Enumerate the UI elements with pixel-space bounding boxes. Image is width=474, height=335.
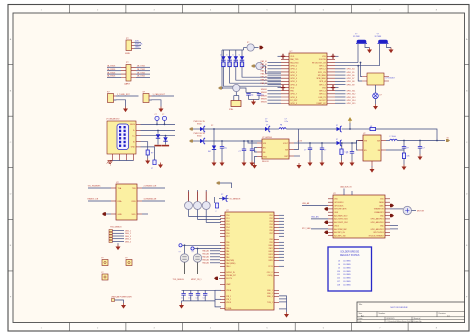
wire (198, 219, 222, 221)
capacitor C16 (190, 290, 192, 293)
svg-text:PB7: PB7 (269, 233, 272, 235)
svg-text:GPIO_4: GPIO_4 (319, 91, 326, 93)
svg-text:Revision: Revision (439, 313, 446, 315)
svg-text:SPLIT/GPIO4: SPLIT/GPIO4 (373, 232, 383, 234)
inductor L2 (390, 139, 398, 140)
svg-text:GPIO0/SDO: GPIO0/SDO (334, 202, 344, 204)
svg-text:SWDIO: SWDIO (261, 95, 268, 97)
wire (279, 250, 284, 252)
svg-text:DBG_3: DBG_3 (125, 236, 131, 238)
svg-text:GPIO_S6: GPIO_S6 (347, 75, 355, 77)
svg-text:U? LM2596: U? LM2596 (262, 137, 272, 139)
power port VCC (349, 119, 351, 123)
capacitor C14 (419, 141, 421, 147)
svg-text:SPI_MAX: SPI_MAX (318, 74, 327, 77)
svg-text:Date:: Date: (359, 317, 364, 320)
svg-text:PIN_1: PIN_1 (226, 296, 231, 298)
wire (335, 83, 346, 85)
svg-text:J18: J18 (337, 285, 340, 287)
svg-text:GPIO_1: GPIO_1 (319, 65, 326, 67)
wire (335, 71, 346, 73)
svg-text:D?: D? (336, 139, 338, 141)
ground (390, 48, 392, 50)
port (106, 213, 111, 215)
svg-text:RTC_SEN: RTC_SEN (302, 228, 311, 230)
wire (268, 102, 282, 104)
svg-text:PB0: PB0 (226, 242, 229, 244)
svg-text:PIN_2: PIN_2 (226, 299, 231, 301)
svg-text:CLOSED: CLOSED (343, 267, 351, 269)
capacitor C12 (351, 143, 353, 152)
wire (210, 262, 220, 264)
svg-text:PD2: PD2 (226, 221, 229, 223)
svg-text:VDD3: VDD3 (334, 225, 339, 227)
wire (335, 68, 346, 70)
svg-text:GPIO_S8: GPIO_S8 (347, 81, 355, 83)
svg-text:PB8: PB8 (269, 239, 272, 241)
capacitor C1 (155, 116, 159, 120)
svg-text:J10: J10 (337, 271, 340, 273)
power port VSS (335, 55, 339, 57)
svg-text:Drawn By:: Drawn By: (414, 321, 423, 323)
svg-text:DEFAULT STATES: DEFAULT STATES (340, 254, 360, 257)
svg-text:PA0_AD: PA0_AD (202, 250, 209, 253)
crystal Y5 (193, 254, 201, 262)
capacitor C2 (162, 116, 166, 120)
ground (213, 161, 215, 163)
wire (279, 247, 284, 249)
wire (335, 74, 346, 76)
svg-text:REG-5V: REG-5V (262, 161, 269, 163)
wire (342, 141, 363, 144)
port 5V out (446, 139, 450, 142)
svg-text:J? USB-MICRO: J? USB-MICRO (106, 119, 120, 121)
svg-text:MOTOR: MOTOR (417, 211, 425, 213)
wire (268, 77, 282, 79)
ground (181, 303, 183, 305)
resistor R7 (357, 128, 371, 130)
svg-text:TXS_DEBUG: TXS_DEBUG (110, 227, 122, 229)
resistor R8 (403, 148, 405, 153)
wire fb (386, 149, 404, 151)
wire (335, 96, 346, 98)
svg-text:SW: SW (377, 140, 380, 142)
wire rail2 (205, 140, 263, 142)
IC U1 (289, 53, 327, 105)
ground (286, 312, 288, 314)
wire (261, 140, 263, 142)
svg-text:TXL_RS485RX: TXL_RS485RX (88, 186, 102, 188)
wire VBUS (141, 123, 176, 125)
svg-text:TCM_1: TCM_1 (267, 302, 273, 304)
svg-text:GND: GND (263, 156, 268, 158)
ground (147, 159, 149, 161)
wire (279, 226, 284, 228)
svg-text:PD0: PD0 (226, 215, 229, 217)
transistor Q2 (188, 190, 190, 192)
svg-text:VDD: VDD (132, 214, 137, 216)
ground (221, 161, 223, 163)
wire (335, 93, 346, 95)
svg-text:GPIO1/SCK: GPIO1/SCK (334, 205, 344, 207)
svg-text:DBG_2: DBG_2 (125, 233, 131, 235)
wire (397, 140, 445, 142)
svg-text:1A_RXD1: 1A_RXD1 (107, 75, 115, 78)
svg-text:PB1: PB1 (226, 245, 229, 247)
ground (160, 107, 162, 109)
svg-text:GND_1: GND_1 (267, 290, 273, 292)
svg-text:XTAL: XTAL (229, 108, 233, 111)
svg-text:PB3: PB3 (269, 221, 272, 223)
svg-text:PA0_TXD: PA0_TXD (290, 58, 299, 61)
wire (342, 128, 357, 130)
wire (279, 235, 284, 237)
capacitor C13 (403, 141, 405, 147)
svg-text:ADC/CHIP1_SDO: ADC/CHIP1_SDO (334, 221, 348, 224)
svg-text:D?: D? (211, 125, 213, 127)
svg-text:C:\Users\sch\MotorDriver.SchDo: C:\Users\sch\MotorDriver.SchDoc (387, 320, 414, 323)
MCU U2 (225, 212, 274, 310)
wire D+ (141, 135, 176, 137)
svg-text:C?: C? (155, 114, 157, 116)
svg-text:CLOSED: CLOSED (343, 278, 351, 280)
svg-text:2B_TXD1: 2B_TXD1 (137, 66, 145, 68)
svg-text:GND: GND (131, 147, 136, 149)
diode D11 (337, 127, 341, 131)
wire EN2 (357, 141, 359, 151)
ground (309, 161, 311, 163)
fiducial F3 (102, 274, 108, 280)
wire (268, 65, 282, 67)
svg-text:TXD_DEBUG: TXD_DEBUG (173, 279, 185, 281)
capacitor C3b (153, 160, 156, 165)
svg-text:C?: C? (162, 114, 164, 116)
svg-text:GPIO_8: GPIO_8 (290, 97, 297, 99)
svg-text:F?: F? (126, 257, 128, 259)
wire (279, 217, 284, 219)
svg-text:PA3_AD: PA3_AD (202, 259, 209, 262)
port (324, 231, 328, 234)
wire (335, 102, 346, 104)
svg-text:PA4(TMS): PA4(TMS) (226, 259, 234, 262)
svg-text:USB_AN: USB_AN (302, 202, 310, 205)
svg-text:GND: GND (118, 214, 123, 216)
wire (302, 205, 328, 207)
wire (352, 142, 357, 144)
svg-text:C?: C? (324, 150, 326, 152)
wire bst (294, 155, 300, 157)
svg-text:PB0: PB0 (290, 91, 294, 93)
svg-text:PWR2 24V IN: PWR2 24V IN (194, 133, 206, 135)
svg-text:GPIO_AN/GPIO2: GPIO_AN/GPIO2 (371, 228, 384, 231)
svg-text:0.1u: 0.1u (285, 121, 289, 123)
svg-text:OSC_O: OSC_O (267, 272, 274, 274)
svg-text:SPIE_MAX: SPIE_MAX (316, 77, 326, 80)
svg-text:2B_TXD1: 2B_TXD1 (137, 76, 145, 78)
svg-text:PA15: PA15 (269, 259, 273, 262)
svg-text:GPIO_AN/GPIO0: GPIO_AN/GPIO0 (371, 221, 384, 224)
wire (88, 187, 111, 189)
svg-text:SPI1_A: SPI1_A (319, 80, 326, 83)
capacitor C17 (197, 290, 199, 293)
svg-text:10u: 10u (265, 121, 268, 123)
wire (210, 256, 220, 258)
svg-text:1A_RXD1: 1A_RXD1 (107, 65, 115, 68)
svg-text:LIN3_TX: LIN3_TX (318, 97, 326, 99)
wire (210, 250, 220, 252)
port 24V2 (189, 140, 193, 143)
svg-text:X?: X? (247, 42, 249, 44)
wire sw (294, 129, 299, 150)
svg-text:CANH: CANH (379, 201, 385, 204)
capacitor C10 (309, 143, 311, 148)
LED D6 (373, 93, 379, 99)
svg-text:32.768K: 32.768K (375, 36, 382, 38)
svg-text:5V_SENSOR: 5V_SENSOR (230, 199, 241, 201)
wire (279, 229, 284, 231)
diode D12 (337, 141, 341, 145)
svg-text:PB9: PB9 (269, 242, 272, 244)
wire (213, 129, 215, 146)
svg-text:J11: J11 (337, 274, 340, 276)
svg-text:TCK/A: TCK/A (226, 307, 232, 310)
svg-text:PA14: PA14 (269, 256, 273, 259)
wire (279, 232, 284, 234)
capacitor C20 (214, 197, 216, 203)
svg-text:Sheet of: Sheet of (414, 317, 421, 320)
power port VSS (335, 87, 339, 89)
svg-text:PD3: PD3 (226, 224, 229, 226)
svg-text:SWDIO: SWDIO (261, 98, 268, 100)
svg-text:C?: C? (239, 151, 241, 153)
wire (223, 69, 281, 86)
svg-text:CLOSED: CLOSED (343, 281, 351, 283)
port 24V (189, 128, 193, 131)
IC U7 (116, 184, 137, 220)
svg-text:SOLDER BRIDGE: SOLDER BRIDGE (340, 252, 359, 254)
ground (419, 155, 421, 157)
wire (268, 62, 282, 64)
svg-text:PB2: PB2 (269, 218, 272, 220)
svg-text:PD4: PD4 (226, 227, 229, 229)
svg-text:GPIO_4: GPIO_4 (290, 78, 297, 80)
power port (251, 65, 255, 68)
svg-text:PA5_IO: PA5_IO (261, 69, 268, 72)
svg-text:F?: F? (102, 272, 104, 274)
svg-text:PWR1 24V IN: PWR1 24V IN (194, 121, 206, 123)
svg-text:SPI1_CN: SPI1_CN (318, 72, 326, 74)
resonator Y1 (244, 47, 248, 49)
svg-text:Y?: Y? (355, 34, 357, 36)
wire (268, 80, 282, 82)
wire (147, 155, 149, 159)
svg-text:3_RS485B_DE: 3_RS485B_DE (144, 199, 158, 201)
earth ground (108, 161, 113, 166)
wire (375, 99, 377, 104)
USB connector J1 (107, 121, 136, 154)
wire (181, 301, 183, 303)
svg-text:J4: J4 (338, 264, 340, 266)
label CAN_H (311, 218, 328, 220)
TVS diode D2 (163, 137, 167, 141)
svg-text:TERMISTOR: TERMISTOR (374, 209, 385, 211)
power port VDD (278, 87, 282, 89)
capacitor C11 (321, 143, 323, 148)
wire (268, 71, 282, 73)
svg-text:PA6_IO: PA6_IO (261, 72, 268, 75)
svg-text:SWCLK: SWCLK (135, 44, 143, 46)
svg-text:CAN_BUS_5V: CAN_BUS_5V (340, 186, 352, 189)
wire (279, 244, 284, 246)
wire shield (110, 160, 134, 162)
solder bridge table (328, 247, 372, 291)
port (390, 214, 394, 217)
svg-text:MRST_PB_1: MRST_PB_1 (191, 279, 202, 281)
svg-text:PA9_IO: PA9_IO (261, 82, 268, 85)
wire GND pin (141, 147, 155, 160)
resistor R6 (341, 143, 343, 149)
svg-text:GPIO_9: GPIO_9 (290, 103, 297, 105)
wire (268, 90, 282, 92)
svg-text:D?: D? (266, 125, 268, 127)
ground (369, 48, 371, 50)
svg-text:PA12: PA12 (269, 250, 273, 253)
wire (279, 214, 284, 216)
svg-text:File:: File: (359, 321, 363, 323)
wire (236, 69, 281, 80)
svg-text:PB4: PB4 (269, 224, 272, 226)
crystal X3 (231, 101, 241, 107)
regulator U5 (262, 139, 289, 159)
svg-text:PA7_IO: PA7_IO (261, 76, 268, 79)
svg-text:XOUT/H: XOUT/H (319, 59, 327, 61)
svg-text:VDD: VDD (290, 56, 295, 58)
svg-text:CLOSED: CLOSED (343, 264, 351, 266)
svg-text:PA3: PA3 (226, 256, 229, 259)
wire (268, 96, 282, 98)
svg-text:PA1: PA1 (226, 250, 229, 253)
svg-text:C?: C? (304, 150, 306, 152)
svg-text:Y?: Y? (179, 252, 181, 254)
svg-text:+5.0V: +5.0V (297, 140, 303, 142)
resistor R4 (235, 60, 237, 62)
svg-text:GPIO_0: GPIO_0 (290, 65, 297, 67)
svg-text:PD6: PD6 (226, 233, 229, 235)
wire (230, 69, 281, 83)
transistor Q4 (205, 190, 207, 192)
svg-text:UART: UART (124, 83, 131, 86)
svg-text:PD7: PD7 (226, 236, 229, 238)
svg-text:GPIO_2: GPIO_2 (290, 72, 297, 74)
wire (279, 241, 284, 243)
svg-text:PA3_IO: PA3_IO (261, 63, 268, 66)
wire (88, 200, 111, 202)
wire (279, 220, 284, 222)
svg-text:22p: 22p (251, 95, 254, 97)
ground (298, 163, 300, 165)
svg-text:GPIO_S4: GPIO_S4 (347, 69, 355, 71)
ground (254, 163, 256, 165)
diode D10 (265, 127, 269, 131)
svg-text:START_BT: START_BT (316, 102, 326, 105)
wire (335, 77, 346, 79)
svg-text:PA11: PA11 (269, 247, 273, 250)
wire out (294, 142, 340, 144)
ground (243, 161, 245, 163)
wire out2 (386, 140, 390, 142)
svg-text:SWD: SWD (125, 53, 131, 55)
svg-text:SS34: SS34 (197, 124, 201, 126)
svg-text:PB1: PB1 (269, 215, 272, 217)
svg-text:PA0: PA0 (226, 247, 229, 250)
port (324, 221, 328, 224)
svg-text:GPIO_7: GPIO_7 (290, 94, 297, 96)
svg-text:VBAT: VBAT (226, 283, 230, 286)
svg-text:GPIO_AN/GPIO1: GPIO_AN/GPIO1 (371, 218, 384, 221)
wire (142, 213, 148, 215)
ground (371, 166, 373, 167)
ground (341, 161, 343, 163)
wire (390, 225, 398, 227)
svg-text:DBG_5: DBG_5 (125, 241, 131, 243)
LED D5 (240, 56, 244, 60)
diode D7 (193, 128, 200, 130)
switch S2 (143, 94, 149, 103)
connector P1 SWD (126, 40, 132, 51)
svg-text:CANL: CANL (379, 204, 384, 207)
svg-text:DBG_4: DBG_4 (125, 239, 131, 241)
svg-text:GPIO_S11: GPIO_S11 (347, 91, 356, 93)
wire (375, 85, 377, 93)
wire XTAL1 (335, 62, 358, 64)
svg-text:SWDIO: SWDIO (261, 89, 268, 91)
svg-text:L? 10uH: L? 10uH (390, 136, 397, 138)
svg-text:GPIO_S7: GPIO_S7 (347, 78, 355, 80)
svg-text:1_T.GND_RST: 1_T.GND_RST (117, 94, 130, 96)
regulator U6 (363, 135, 381, 161)
ground bar (162, 145, 169, 147)
svg-text:VBUS: VBUS (130, 124, 136, 126)
resistor R3 (229, 60, 231, 62)
svg-text:2_RS485T_DE: 2_RS485T_DE (144, 186, 157, 188)
svg-text:PD5: PD5 (226, 230, 229, 232)
wire (268, 74, 282, 76)
svg-text:C?: C? (151, 168, 153, 170)
svg-text:OSC(I): OSC(I) (267, 275, 273, 277)
svg-text:PA1_AD: PA1_AD (202, 253, 209, 256)
svg-text:R?: R? (407, 148, 409, 150)
capacitor C8 (243, 141, 245, 149)
svg-text:U? DS1307: U? DS1307 (386, 78, 395, 80)
svg-text:RF_BOOST_CH: RF_BOOST_CH (312, 62, 326, 64)
svg-text:GPIO_3: GPIO_3 (290, 75, 297, 77)
title block (357, 302, 465, 323)
power port (260, 46, 264, 49)
svg-text:1A_RXD1: 1A_RXD1 (107, 71, 115, 74)
buzzer LS1 (403, 206, 411, 214)
svg-text:PA2_AD: PA2_AD (202, 256, 209, 259)
ground (117, 243, 119, 244)
svg-text:0.1: 0.1 (181, 297, 183, 299)
wire (286, 128, 340, 130)
transistor Q3 (197, 190, 199, 192)
svg-text:ADC/TAPD_SDO: ADC/TAPD_SDO (334, 214, 348, 217)
svg-text:2B_TXD1: 2B_TXD1 (137, 69, 145, 71)
svg-text:VDD: VDD (290, 87, 295, 89)
svg-text:J12: J12 (337, 278, 340, 280)
svg-text:1_CAN_BOOT: 1_CAN_BOOT (153, 93, 166, 96)
svg-text:GPIO_3: GPIO_3 (319, 84, 326, 86)
